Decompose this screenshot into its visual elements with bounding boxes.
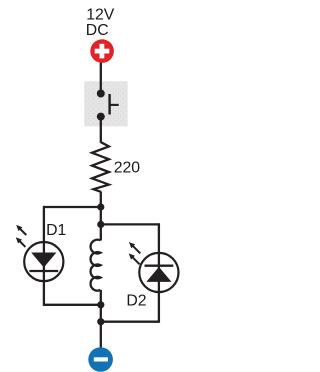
svg-text:220: 220 — [114, 160, 141, 177]
svg-text:DC: DC — [86, 22, 109, 39]
svg-text:D2: D2 — [126, 292, 146, 309]
svg-text:D1: D1 — [46, 222, 66, 239]
svg-text:12V: 12V — [86, 7, 115, 24]
